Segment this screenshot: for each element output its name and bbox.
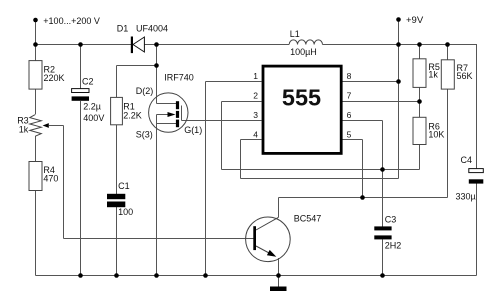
svg-text:555: 555	[282, 85, 321, 111]
svg-text:2.2µ: 2.2µ	[83, 101, 101, 111]
svg-text:330µ: 330µ	[456, 191, 476, 201]
svg-text:4: 4	[253, 130, 258, 140]
svg-text:D1: D1	[117, 24, 129, 34]
svg-text:220K: 220K	[44, 73, 65, 83]
svg-text:1: 1	[253, 71, 258, 81]
svg-text:C2: C2	[82, 76, 94, 86]
svg-text:10K: 10K	[428, 130, 444, 140]
svg-text:+100...+200 V: +100...+200 V	[43, 16, 100, 26]
svg-text:470: 470	[43, 174, 58, 184]
svg-text:BC547: BC547	[294, 214, 322, 224]
svg-text:D(2): D(2)	[136, 86, 154, 96]
svg-text:56K: 56K	[457, 71, 473, 81]
svg-text:C3: C3	[385, 214, 397, 224]
svg-text:100µH: 100µH	[290, 47, 317, 57]
svg-text:5: 5	[347, 130, 352, 140]
svg-text:8: 8	[347, 71, 352, 81]
svg-text:1k: 1k	[428, 70, 438, 80]
svg-text:L1: L1	[290, 29, 300, 39]
svg-text:C1: C1	[118, 181, 130, 191]
svg-text:+9V: +9V	[406, 15, 424, 26]
svg-text:7: 7	[347, 91, 352, 101]
svg-text:6: 6	[347, 110, 352, 120]
svg-text:S(3): S(3)	[136, 129, 153, 139]
svg-text:1k: 1k	[19, 124, 29, 134]
svg-text:2.2K: 2.2K	[123, 111, 142, 121]
svg-text:UF4004: UF4004	[136, 24, 168, 34]
svg-text:2H2: 2H2	[385, 240, 402, 250]
svg-text:3: 3	[253, 110, 258, 120]
svg-text:100: 100	[118, 207, 133, 217]
svg-text:G(1): G(1)	[184, 125, 202, 135]
svg-text:C4: C4	[461, 155, 473, 165]
svg-text:2: 2	[253, 91, 258, 101]
svg-text:400V: 400V	[83, 113, 104, 123]
svg-text:IRF740: IRF740	[164, 72, 194, 82]
